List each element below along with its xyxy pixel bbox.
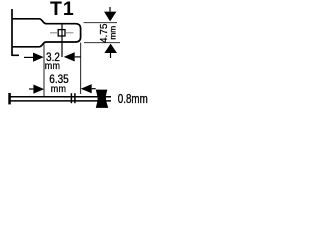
- lead wire bottom line: [10, 100, 111, 102]
- tuning screw centerline: [61, 24, 63, 57]
- tuning screw square: [58, 30, 65, 36]
- svg-text:T1: T1: [50, 0, 75, 20]
- dim 0.8 bottom arrow: [96, 94, 108, 108]
- dim 4.75 bottom arrow stub: [110, 53, 112, 58]
- dim 0.8 top arrow: [96, 90, 108, 104]
- coil body left end line: [11, 9, 13, 56]
- lead wire break tick 2: [74, 93, 76, 103]
- lead wire top line: [10, 96, 111, 98]
- background: [0, 0, 152, 111]
- dim 6.35 right leader: [92, 88, 96, 90]
- dim 3.2 right leader: [75, 56, 81, 58]
- dim 6.35 left arrow: [33, 85, 44, 94]
- extension line left (3.2/6.35): [43, 44, 45, 96]
- extension line bottom (4.75): [84, 42, 120, 44]
- dim 4.75 top arrow stub: [109, 7, 111, 12]
- svg-text:0.8mm: 0.8mm: [118, 93, 148, 106]
- extension line top (4.75): [84, 22, 118, 24]
- lead wire break tick 1: [70, 93, 72, 103]
- svg-text:mm: mm: [45, 60, 61, 72]
- dim 0.8 arrow overlap fill: [98, 93, 107, 105]
- dim 3.2 left arrow: [33, 53, 44, 62]
- dim 3.2 left leader: [24, 56, 33, 58]
- dim 6.35 right arrow: [81, 84, 92, 93]
- screw axis dash left: [50, 32, 58, 34]
- svg-text:mm: mm: [107, 26, 117, 40]
- lead wire left end tick: [8, 93, 11, 104]
- dim 3.2 right arrow: [64, 52, 75, 61]
- svg-text:mm: mm: [51, 83, 67, 95]
- extension line right (6.35): [80, 43, 82, 94]
- coil body outline: [12, 19, 81, 47]
- dim 4.75 bottom arrow: [104, 44, 117, 53]
- screw axis dash right: [65, 32, 73, 34]
- coil body bottom-left stub: [12, 54, 19, 56]
- dim 6.35 left leader: [29, 88, 33, 90]
- dim 4.75 top arrow: [104, 12, 116, 22]
